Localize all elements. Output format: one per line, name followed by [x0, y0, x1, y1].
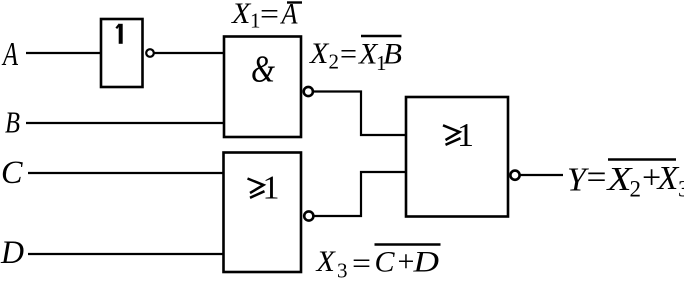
svg-text:3: 3 [337, 259, 348, 281]
NAND gate U2 box [224, 37, 301, 138]
svg-text:&: & [251, 49, 275, 91]
svg-text:X: X [309, 37, 330, 70]
inverter U1 box [101, 19, 143, 87]
wire D to NOR gate [28, 253, 224, 255]
node X2 label: X2 = overline(X1 B) [309, 36, 402, 75]
svg-text:2: 2 [630, 177, 642, 202]
wire A to inverter [26, 52, 101, 54]
NOR gate U3 box [224, 153, 302, 273]
svg-text:D: D [412, 246, 439, 279]
svg-text:A: A [2, 36, 19, 73]
svg-text:3: 3 [678, 177, 684, 202]
svg-text:X: X [656, 160, 680, 197]
svg-text:A: A [280, 0, 298, 31]
wire X2: NAND output to OR gate U4 upper input [313, 92, 406, 136]
svg-text:2: 2 [329, 50, 340, 74]
svg-text:C: C [1, 155, 23, 191]
svg-text:B: B [5, 105, 20, 140]
svg-text:B: B [383, 38, 402, 71]
svg-text:+: + [398, 245, 415, 278]
wire B to AND gate [26, 122, 224, 124]
svg-text:=: = [260, 0, 279, 31]
svg-text:D: D [0, 235, 24, 271]
NOR gate U4 box [406, 97, 508, 217]
node X3 label: X3 = overline(C+D) [316, 245, 441, 281]
inverter U1 label 1 [119, 24, 123, 44]
NOR gate U4 label >=1 [443, 117, 474, 154]
NOR gate U3 label >=1 [248, 170, 280, 207]
inverter U1 output bubble [146, 49, 154, 57]
wire inverter output to AND gate (node X1) [155, 52, 225, 54]
svg-text:=: = [352, 247, 371, 280]
svg-text:1: 1 [263, 170, 280, 207]
svg-text:=: = [587, 159, 607, 196]
svg-text:1: 1 [457, 117, 474, 154]
node X1 label: X1 = A-bar [231, 0, 302, 33]
svg-text:1: 1 [250, 9, 261, 33]
wire Y output [521, 174, 564, 176]
svg-text:=: = [340, 38, 357, 71]
NOR gate U3 output bubble [304, 211, 313, 220]
svg-text:X: X [316, 245, 337, 278]
node Y label: Y = overline(X2+X3) [567, 159, 684, 202]
wire C to NOR gate [28, 172, 224, 174]
svg-text:C: C [375, 246, 396, 279]
NAND gate U2 output bubble [304, 87, 313, 96]
svg-text:X: X [231, 0, 252, 30]
NOR gate U4 output bubble [510, 171, 519, 180]
wire X3: NOR output to OR gate U4 lower input [314, 172, 407, 216]
